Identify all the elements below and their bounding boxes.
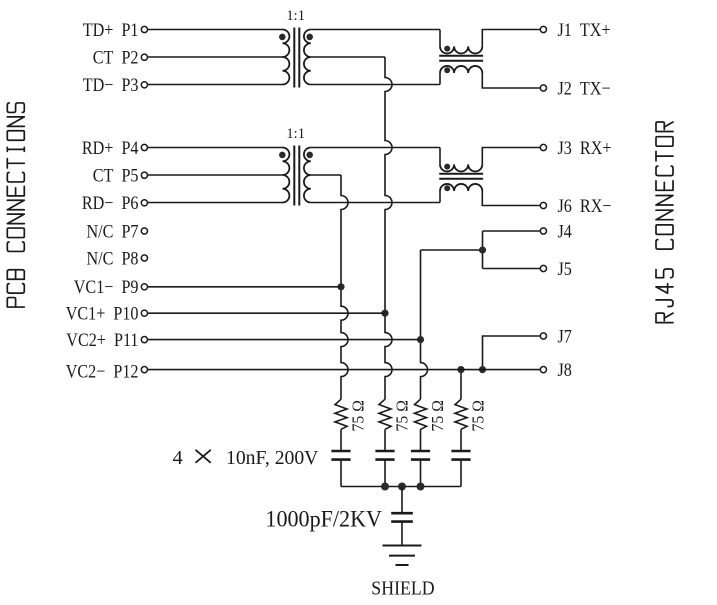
svg-text:N/C P8: N/C P8 [86,247,138,269]
terminal P3 (TD−) [141,82,147,88]
terminal P4 (RD+) [141,144,147,150]
svg-text:J6 RX−: J6 RX− [558,195,612,217]
svg-text:VC1− P9: VC1− P9 [74,276,139,298]
terminal J6 (RX−) [540,202,546,208]
svg-text:TD+ P1: TD+ P1 [83,19,139,41]
wire bus to capacitor C5 [401,487,403,514]
wire resistor R1 to capacitor C1 [340,429,342,451]
svg-text:RD+ P4: RD+ P4 [82,137,139,159]
svg-text:VC2− P12: VC2− P12 [66,360,139,382]
terminal P12 (VC2−) [141,367,147,373]
wire node CT1 from P10 to resistor R2 (hops over P11, P12 wires) [385,313,392,399]
terminal P7 (N/C) [141,228,147,234]
wire node J45 to J5 [483,268,541,270]
svg-text:10nF, 200V: 10nF, 200V [226,447,319,469]
wire capacitor C2 to ground bus [384,460,386,487]
wire node J45 vertical to P11 [420,250,422,340]
junction CT1 x P10 [381,310,388,317]
svg-text:1:1: 1:1 [286,126,305,142]
wire P9 (VC1-) [148,286,341,288]
transformer T2 primary polarity dot [279,152,286,159]
wire P11 to resistor R3 (hops over P12 wire) [421,340,428,400]
wire T2 primary CT lead [148,174,283,176]
label PCB CONNECTIONS (left title) [7,298,24,308]
wire P12 to resistor R4 [460,370,462,400]
label RJ45 CONNECTOR (right title) [656,313,673,323]
svg-text:RD− P6: RD− P6 [82,192,139,214]
choke L2 bottom winding [439,191,441,203]
capacitor C5 1000pF [391,512,413,515]
wire resistor R3 to capacitor C3 [420,429,422,451]
choke L1 top polarity dot [444,46,450,52]
wire T2 secondary CT to node CT2 [311,174,341,176]
svg-text:SHIELD: SHIELD [371,577,434,599]
capacitor C2 10nF [375,450,394,453]
svg-text:75 Ω: 75 Ω [348,400,368,431]
svg-text:75 Ω: 75 Ω [392,400,412,431]
transformer T1 primary polarity dot [279,34,286,41]
ground (shield earth symbol) [383,545,422,547]
svg-text:TD− P3: TD− P3 [83,74,139,96]
resistor R4 75ohm [455,399,467,429]
svg-text:J5: J5 [558,258,573,280]
svg-text:1:1: 1:1 [286,8,305,24]
choke L2 bottom polarity dot [444,185,450,191]
wire node CT2 from P9 to resistor R1 (hops over P10, P11, P12 wires) [341,287,348,399]
wire T1 primary top lead [148,29,283,31]
wire node CT1 vertical to P10 (hops over TX-, RX+, RX- wires) [385,57,392,313]
transformer T2 secondary polarity dot [306,152,313,159]
wire T1 secondary bottom to L1 [311,84,440,86]
resistor R2 75ohm [379,399,391,429]
svg-text:J3 RX+: J3 RX+ [558,137,612,159]
wire P12 (VC2-) to J8 [148,369,541,371]
wire T2 secondary bottom to L2 [311,202,440,204]
svg-text:N/C P7: N/C P7 [86,220,138,242]
svg-text:J7: J7 [558,325,573,347]
capacitor C4 10nF [451,450,470,453]
wire T1 secondary CT to node CT1 [311,56,385,58]
wire P10 (VC1+) [148,312,385,314]
wire T2 primary bottom lead [148,202,283,204]
wire resistor R4 to capacitor C4 [460,429,462,451]
terminal J1 (TX+) [540,26,546,32]
wire capacitor C4 to ground bus [460,460,462,487]
svg-text:VC2+ P11: VC2+ P11 [66,329,138,351]
wire T1 primary CT lead [148,56,283,58]
terminal P9 (VC1−) [141,284,147,290]
transformer T1 core [293,28,295,88]
transformer T2 primary winding [283,148,290,203]
svg-text:VC1+ P10: VC1+ P10 [66,302,139,324]
svg-text:1000pF/2KV: 1000pF/2KV [265,506,382,532]
capacitor C3 10nF [411,450,430,453]
resistor R3 75ohm [415,399,427,429]
junction J45 [479,246,486,253]
svg-text:75 Ω: 75 Ω [428,400,448,431]
terminal P11 (VC2+) [141,337,147,343]
transformer T1 primary winding [283,30,290,85]
junction CT2 x P9 [337,283,344,290]
terminal P10 (VC1+) [141,310,147,316]
svg-text:J1 TX+: J1 TX+ [558,19,611,41]
junction bus x C2 [381,483,389,491]
junction bus x C3 [417,483,425,491]
terminal J7 [540,333,546,339]
wire resistor R2 to capacitor C2 [384,429,386,451]
wire T1 secondary top to L1 [311,29,440,31]
wire capacitor C1 to ground bus [340,460,342,487]
wire node J45 horizontal [421,249,483,251]
transformer T1 secondary winding [304,30,311,85]
wire P11 (VC2+) [148,339,421,341]
choke L1 top winding [439,30,441,47]
svg-text:J4: J4 [558,220,573,242]
choke L1 bottom polarity dot [444,67,450,73]
terminal P1 (TD+) [141,26,147,32]
svg-text:J8: J8 [558,359,573,381]
svg-text:CT P2: CT P2 [93,46,139,68]
wire T2 secondary top to L2 [311,147,440,149]
wire ground bus [341,486,461,488]
svg-text:J2 TX−: J2 TX− [558,77,611,99]
junction bus x C5 stem [398,483,406,491]
wire T2 primary top lead [148,147,283,149]
wire node J45 to J4 [483,230,541,232]
svg-text:75 Ω: 75 Ω [468,400,488,431]
capacitor C1 10nF [331,450,350,453]
terminal J5 [540,265,546,271]
svg-text:CT P5: CT P5 [93,164,139,186]
transformer T2 secondary winding [304,148,311,203]
terminal J4 [540,228,546,234]
wire T1 primary bottom lead [148,84,283,86]
terminal P6 (RD−) [141,200,147,206]
choke L2 core [439,173,483,175]
terminal J8 [540,367,546,373]
terminal P8 (N/C) [141,255,147,261]
resistor R1 75ohm [335,399,347,429]
choke L1 core [439,55,483,57]
wire J7 to P12 wire [483,336,541,370]
junction J7 x P12 [479,366,486,373]
wire capacitor C5 to ground [401,522,403,546]
wire capacitor C3 to ground bus [420,460,422,487]
transformer T2 core [293,146,295,206]
svg-text:4: 4 [172,447,182,469]
wire node J45 vertical J4-J5 [482,231,484,269]
wire node CT2 vertical to P9 (hops over RX- wire) [341,175,348,287]
terminal J2 (TX−) [540,85,546,91]
junction B3 x P11 [417,336,424,343]
transformer T1 secondary polarity dot [306,34,313,41]
choke L2 top winding [439,148,441,165]
terminal P5 (CT) [141,172,147,178]
junction B4 x P12 [457,366,464,373]
choke L1 bottom winding [439,73,441,85]
choke L2 top polarity dot [444,164,450,170]
terminal J3 (RX+) [540,144,546,150]
terminal P2 (CT) [141,54,147,60]
